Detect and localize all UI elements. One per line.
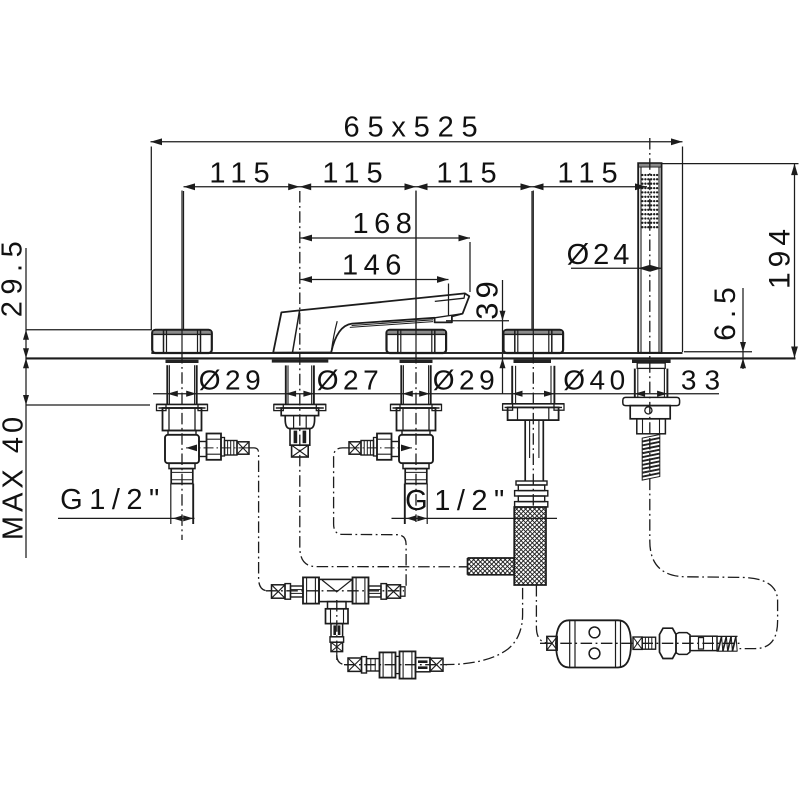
spout bbox=[273, 293, 469, 353]
dimension 6.5 deck thickness bbox=[684, 288, 752, 369]
handle at x=533.3 bbox=[504, 330, 564, 353]
centerline pos3 bbox=[415, 191, 417, 353]
svg-text:Ø40: Ø40 bbox=[563, 365, 629, 396]
handle at x=182 bbox=[152, 330, 212, 353]
dimension 29.5 handle height (left) bbox=[23, 248, 152, 558]
svg-text:115: 115 bbox=[557, 158, 624, 190]
svg-text:65x525: 65x525 bbox=[344, 112, 486, 144]
dimension 168 spout reach bbox=[301, 235, 471, 292]
svg-text:Ø29: Ø29 bbox=[433, 365, 499, 396]
dimension 65x525 overall width bbox=[151, 138, 683, 352]
centerline pos2 / hose to spout bbox=[300, 191, 468, 567]
diverter hose line to check valve bbox=[536, 585, 550, 643]
shower holder shank pos5 below deck bbox=[623, 360, 680, 434]
svg-text:MAX 40: MAX 40 bbox=[0, 413, 30, 540]
G1/2 dims bbox=[58, 515, 557, 521]
dimension D24 handshower bbox=[571, 265, 662, 272]
handle at x=416.3 bbox=[387, 330, 447, 353]
dimension MAX 40 mounting thickness bbox=[23, 358, 150, 405]
svg-text:Ø24: Ø24 bbox=[567, 239, 634, 271]
tee mixer fitting bbox=[272, 577, 406, 660]
countertop mounting surface line bbox=[26, 357, 796, 359]
hose pos3 valve to tee right bbox=[334, 448, 407, 586]
valve pos1 (hot) bbox=[157, 360, 251, 524]
svg-text:39: 39 bbox=[470, 277, 505, 319]
dimension chain 115 x4 bbox=[184, 183, 648, 330]
svg-text:33: 33 bbox=[681, 365, 728, 396]
tee axis bbox=[266, 590, 404, 592]
deck plate top edge bbox=[151, 352, 682, 354]
handshower in deck holder bbox=[638, 163, 661, 353]
valve pos3 (cold) bbox=[348, 360, 442, 524]
hose pos1 valve to tee left bbox=[249, 448, 271, 591]
svg-text:115: 115 bbox=[322, 158, 389, 190]
svg-text:115: 115 bbox=[436, 158, 503, 190]
centerline pos1 bbox=[181, 191, 183, 353]
check valve axis bbox=[540, 642, 740, 644]
svg-text:146: 146 bbox=[342, 250, 407, 282]
spout shank pos2 below deck bbox=[272, 360, 329, 457]
svg-text:6.5: 6.5 bbox=[709, 281, 742, 341]
check valve / backflow preventer assembly bbox=[547, 620, 717, 667]
hose inline connector to diverter bbox=[443, 585, 523, 665]
inline connector between tee and diverter hose bbox=[348, 651, 443, 678]
hose tee bottom to inline connector bbox=[337, 655, 348, 665]
tee bottom port axis bbox=[336, 600, 338, 651]
dimension 146 bbox=[301, 276, 449, 316]
svg-text:G1/2": G1/2" bbox=[60, 484, 166, 516]
shower spray face dots bbox=[641, 174, 658, 229]
svg-text:115: 115 bbox=[209, 158, 276, 190]
dimension 194 shower height bbox=[662, 164, 799, 358]
shower hose loop pos5 to check valve bbox=[650, 438, 778, 649]
svg-text:G1/2": G1/2" bbox=[405, 485, 511, 517]
svg-text:Ø27: Ø27 bbox=[317, 365, 383, 396]
pos5 threaded rod bbox=[642, 435, 660, 481]
diverter shank pos4 below deck bbox=[503, 360, 564, 507]
svg-text:Ø29: Ø29 bbox=[199, 365, 265, 396]
shank diameter dims bbox=[153, 391, 719, 397]
inline connector axis bbox=[344, 664, 447, 666]
centerline pos5 bbox=[649, 138, 651, 434]
coil spring hose end bbox=[717, 636, 738, 651]
centerline pos4 bbox=[532, 191, 534, 353]
braided branch to spout bbox=[378, 558, 615, 575]
svg-text:168: 168 bbox=[353, 208, 418, 240]
svg-text:194: 194 bbox=[764, 224, 797, 289]
svg-text:29.5: 29.5 bbox=[0, 235, 29, 317]
diverter braided hose bbox=[514, 385, 546, 682]
dimension 39 spout height bbox=[446, 280, 509, 394]
